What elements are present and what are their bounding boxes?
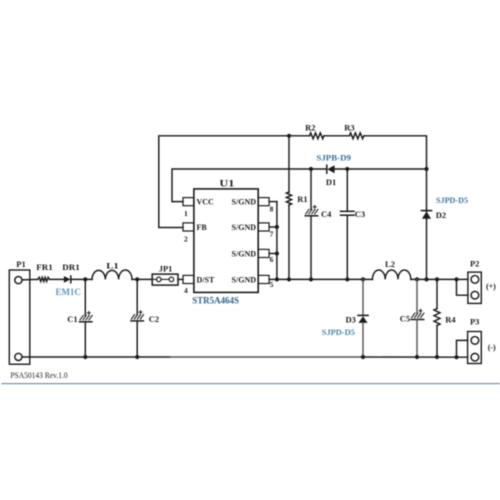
connector P1: [9, 259, 30, 364]
resistor R4: [434, 279, 456, 357]
svg-text:C1: C1: [67, 314, 77, 324]
svg-text:EM1C: EM1C: [55, 287, 81, 297]
wire bottom rail: [22, 356, 468, 358]
svg-text:(+): (+): [486, 282, 496, 291]
wire L2 to P2: [411, 278, 468, 280]
junction node C3 top: [345, 167, 349, 171]
capacitor C3: [341, 169, 366, 279]
junction node C4 bottom: [309, 277, 313, 281]
svg-text:8: 8: [270, 204, 274, 213]
svg-text:R4: R4: [445, 315, 456, 325]
junction node C2 top: [135, 277, 139, 281]
wire FR1 to DR1: [50, 278, 65, 280]
capacitor C1: [67, 279, 92, 357]
resistor R1: [286, 136, 307, 280]
wire D1 to corner: [335, 168, 427, 170]
junction node R1 top: [287, 134, 291, 138]
junction node C1 top: [83, 277, 87, 281]
svg-text:S/GND: S/GND: [232, 198, 257, 207]
capacitor C5: [400, 279, 424, 357]
svg-text:1: 1: [184, 209, 188, 218]
svg-text:P1: P1: [16, 259, 25, 269]
svg-text:SJPD-D5: SJPD-D5: [436, 195, 469, 205]
junction node C5 bottom: [415, 355, 419, 359]
wire L1 to JP1: [132, 278, 152, 280]
svg-text:R2: R2: [305, 122, 315, 132]
svg-text:R1: R1: [297, 194, 307, 204]
diode D2 (SJPD-D5): [422, 195, 469, 280]
junction node C4 top: [309, 167, 313, 171]
junction node D2 top: [424, 167, 428, 171]
svg-text:D2: D2: [436, 210, 446, 220]
svg-text:VCC: VCC: [197, 198, 215, 207]
wire VCC loop: [172, 169, 327, 202]
jumper JP1: [152, 263, 178, 285]
capacitor C4: [305, 169, 332, 279]
wire P2 branch: [457, 279, 468, 295]
svg-text:4: 4: [184, 286, 188, 295]
svg-text:JP1: JP1: [159, 263, 173, 273]
svg-text:DR1: DR1: [62, 262, 80, 272]
svg-text:STR5A464S: STR5A464S: [192, 296, 239, 306]
svg-text:D3: D3: [346, 314, 356, 324]
connector P3: [468, 317, 496, 364]
junction node D2 bottom: [424, 277, 428, 281]
svg-text:SJPD-D5: SJPD-D5: [322, 327, 356, 337]
junction node D3 top: [361, 277, 365, 281]
svg-text:P3: P3: [470, 317, 479, 327]
resistor R2: [305, 122, 324, 139]
svg-text:7: 7: [270, 230, 274, 239]
svg-text:P2: P2: [470, 259, 479, 269]
svg-text:C4: C4: [321, 209, 332, 219]
svg-text:SJPB-D9: SJPB-D9: [316, 152, 351, 162]
junction node C2 bottom: [135, 355, 139, 359]
connector P2: [468, 259, 496, 304]
wire R3 to right corner: [364, 136, 427, 211]
op-amp-ic U1 STR5A464S: [183, 179, 274, 306]
wire P3 branch: [457, 340, 468, 357]
junction node P3 branch: [454, 355, 458, 359]
svg-text:C2: C2: [149, 314, 159, 324]
junction node R4 top: [435, 277, 439, 281]
wire JP1 to D/ST pin: [178, 278, 183, 280]
svg-text:L1: L1: [106, 260, 119, 270]
junction node R4 bottom: [435, 355, 439, 359]
junction node pin6 bus: [275, 251, 279, 255]
svg-text:R3: R3: [344, 122, 354, 132]
diode D3 (SJPD-D5): [322, 279, 368, 357]
capacitor C2: [131, 279, 159, 357]
junction node C5 top: [415, 277, 419, 281]
svg-text:S/GND: S/GND: [232, 275, 257, 284]
svg-text:C3: C3: [355, 209, 365, 219]
svg-text:S/GND: S/GND: [232, 249, 257, 258]
svg-text:U1: U1: [219, 179, 234, 189]
diode D1 (SJPB-D9): [316, 152, 351, 187]
junction node C1 bottom: [83, 355, 87, 359]
svg-text:D1: D1: [326, 177, 336, 187]
svg-text:FR1: FR1: [36, 262, 53, 272]
wire input rail P1 to FR1: [22, 278, 38, 281]
inductor L2: [372, 259, 410, 280]
wire output rail pin5 to L2: [277, 278, 373, 280]
junction node R1 bottom: [287, 277, 291, 281]
junction node C3 bottom: [345, 277, 349, 281]
junction node D3 bottom: [361, 355, 365, 359]
junction node pin7 bus: [275, 225, 279, 229]
svg-text:L2: L2: [385, 259, 395, 269]
inductor L1: [92, 260, 132, 279]
svg-text:S/GND: S/GND: [232, 223, 257, 232]
footer rule line: [2, 383, 500, 385]
junction node P2 branch: [454, 277, 458, 281]
wire FB loop: [159, 136, 310, 228]
svg-text:D/ST: D/ST: [197, 275, 215, 284]
resistor R3: [344, 122, 364, 139]
svg-text:FB: FB: [197, 223, 208, 232]
svg-text:PSA50143 Rev.1.0: PSA50143 Rev.1.0: [10, 371, 67, 380]
svg-text:6: 6: [270, 255, 274, 264]
svg-text:C5: C5: [400, 314, 410, 324]
svg-text:(-): (-): [488, 343, 496, 352]
wire DR1 to L1: [71, 278, 92, 280]
wire R2 to R3: [324, 135, 350, 137]
diode DR1 (EM1C): [55, 262, 81, 297]
fuse resistor FR1: [36, 262, 53, 281]
svg-text:2: 2: [184, 234, 188, 243]
junction node pin5 bus: [275, 277, 279, 281]
wire S/GND pin bus: [269, 202, 277, 280]
svg-text:5: 5: [270, 280, 274, 289]
